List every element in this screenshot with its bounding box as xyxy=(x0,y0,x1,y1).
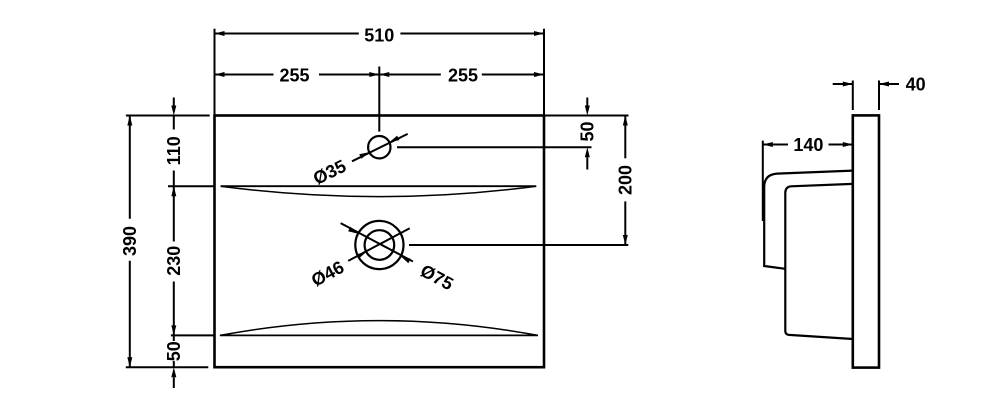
basin side inner profile xyxy=(785,184,853,339)
dimension 110 xyxy=(164,98,184,187)
top extension line right xyxy=(544,115,629,117)
svg-text:110: 110 xyxy=(164,136,184,165)
dimension 140 xyxy=(763,135,853,221)
svg-text:Ø46: Ø46 xyxy=(308,257,347,291)
drain outer circle xyxy=(355,221,403,269)
dimension 255 left xyxy=(215,65,380,131)
basin side outer profile xyxy=(764,171,853,269)
svg-text:Ø75: Ø75 xyxy=(417,261,456,295)
drain inner circle xyxy=(365,230,395,260)
dimension 50 bottom left xyxy=(164,335,184,388)
svg-text:230: 230 xyxy=(164,246,184,276)
svg-text:200: 200 xyxy=(616,165,636,195)
svg-text:140: 140 xyxy=(793,135,823,155)
faucet hole circle xyxy=(368,136,390,158)
dimension 390 xyxy=(120,116,140,368)
left extension line bottom xyxy=(126,366,209,368)
drain leader line Ø75 xyxy=(341,223,413,263)
dimension 200 xyxy=(616,116,636,246)
svg-text:50: 50 xyxy=(164,341,184,361)
left extension line at lower basin edge xyxy=(171,334,214,336)
basin bottom inner edge (lower lens curve) xyxy=(220,321,538,336)
svg-text:Ø35: Ø35 xyxy=(310,156,349,189)
svg-text:255: 255 xyxy=(279,65,309,85)
svg-text:50: 50 xyxy=(578,121,598,141)
faucet hole leader line xyxy=(352,134,408,161)
left extension line top xyxy=(126,115,210,117)
svg-text:40: 40 xyxy=(906,75,926,95)
svg-text:390: 390 xyxy=(120,226,140,256)
drain reference line xyxy=(409,244,628,246)
svg-text:510: 510 xyxy=(364,25,394,45)
dimension 50 right xyxy=(578,98,598,170)
basin top inner edge (upper lens curve) xyxy=(221,186,537,196)
side panel outline xyxy=(853,115,879,367)
label Ø35 xyxy=(310,156,349,189)
drain leader line Ø46 xyxy=(348,228,410,261)
dimension 230 xyxy=(164,186,184,335)
faucet hole reference line xyxy=(397,146,592,148)
label Ø46 xyxy=(308,257,347,291)
dimension 40 xyxy=(833,75,926,111)
svg-text:255: 255 xyxy=(448,65,478,85)
basin front outline xyxy=(215,116,545,368)
dimension 510 xyxy=(215,25,545,115)
dimension 255 right xyxy=(379,65,544,85)
left extension line at upper basin edge xyxy=(168,185,215,187)
label Ø75 xyxy=(417,261,456,295)
